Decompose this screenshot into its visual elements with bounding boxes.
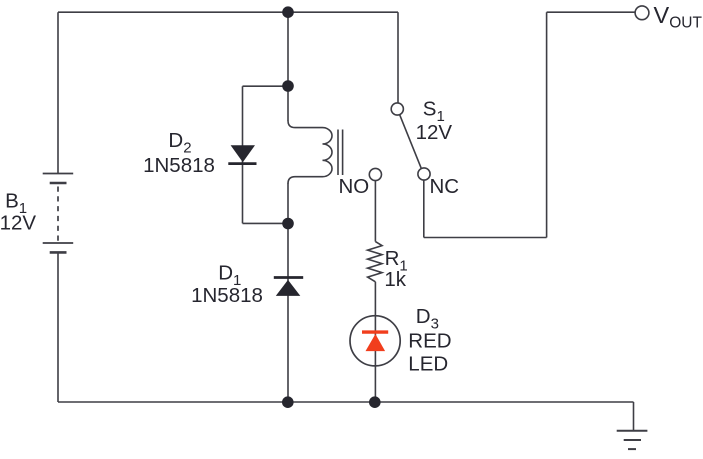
terminal Vout circle [635,6,649,20]
wire right riser vertical [546,12,548,237]
wire D2 branch top horizontal [243,85,289,87]
wire left vertical (battery top lead) [57,12,59,173]
wire NC contact down [423,180,425,238]
svg-text:12V: 12V [0,212,36,235]
LED D3 red triangle [366,334,386,351]
diode D1 (cathode bar + triangle) [274,278,303,296]
wire resistor to bottom rail (through LED) [374,282,376,402]
relay core line 2 [342,130,344,176]
wire top horizontal [58,11,398,13]
wire D2 branch bottom horizontal [243,222,289,224]
node junction top center [282,6,294,18]
battery B1 plates [43,174,73,253]
wire NC horizontal to right riser [424,237,547,239]
LED D3 circle [350,316,400,366]
switch S1 lever [400,115,422,169]
relay coil L1 [288,121,343,184]
node junction bottom LED [369,396,381,408]
wire left vertical (battery bottom lead) [57,253,59,403]
wire D2 branch left vertical [242,86,244,223]
svg-text:12V: 12V [416,121,453,144]
svg-text:LED: LED [408,353,448,376]
wire main vertical top (node to coil) [287,12,289,121]
wire main vertical (coil bottom to bottom rail) [287,183,289,402]
switch S1 NC contact [418,168,430,180]
svg-text:NC: NC [430,175,460,198]
diode D2 (triangle + cathode bar) [228,145,256,163]
svg-text:1N5818: 1N5818 [191,284,263,307]
svg-text:RED: RED [408,330,451,353]
resistor R1 zigzag [368,242,382,282]
node junction D2 top [282,80,294,92]
svg-text:NO: NO [339,175,370,198]
LED D3 red cathode bar [362,330,388,333]
switch S1 NO contact [369,168,381,180]
battery internal dashed link [57,187,59,242]
svg-text:1N5818: 1N5818 [143,154,215,177]
node junction bottom center [282,396,294,408]
wire NO contact down to resistor [374,181,376,242]
wire Vout horizontal [547,11,636,13]
svg-text:1k: 1k [384,268,406,291]
switch S1 top contact [391,103,403,115]
wire right vertical to switch top contact [397,12,399,103]
ground symbol [617,402,648,449]
wire bottom horizontal [58,401,634,403]
relay core line 1 [337,130,339,176]
node junction D2 bottom [282,218,294,230]
